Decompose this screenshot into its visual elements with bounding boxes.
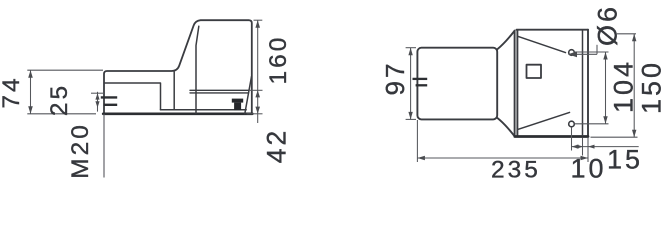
ext hole center vertical [571,127,573,150]
dimensions left view [27,20,262,123]
arrowheads right view [408,34,636,160]
plate double line upper [190,89,249,91]
cone bottom [497,118,514,136]
ext shared bottom [247,113,263,115]
base right slant inner edge [245,77,252,114]
dia6 leader vertical [596,45,598,55]
ext 150 top [617,33,636,35]
tube rounded rect [417,48,497,120]
dimensions right view [406,34,639,162]
arrow dim74 bottom [28,106,33,114]
arrow dim235 left [417,156,425,160]
svg-text:M20: M20 [67,122,94,179]
nub bolt body [234,103,241,111]
arrow dim10 right [588,145,595,149]
inner bottom line [161,109,247,111]
bottom chained dim line 10/15 [572,146,639,148]
arrow dim104 bottom [603,116,607,124]
dim 97 line [410,48,412,120]
arrowheads left view [28,20,260,114]
dim 235 line [417,157,588,159]
inner small rect (lens) [527,65,542,78]
texts left view (rotated) [0,35,292,179]
ext 160 top [254,19,263,21]
nub bolt cap on base [232,99,243,103]
arrow dim235 right [581,156,589,160]
dim 25 line [97,92,99,112]
svg-text:42: 42 [262,128,292,163]
arrow dim150 bottom [632,130,636,138]
ext tube left down [416,120,418,162]
tube thread tick lower [416,84,428,86]
front face line 1 [514,31,516,137]
arrow dim160 top [255,20,260,28]
ext bottom 74 [27,113,96,115]
arrow dim97 top [408,48,412,56]
M20 leader (box edge extended down) [103,114,105,178]
head bottom edge thick [515,135,588,138]
mounting hole top (dia 6) [569,50,575,56]
M20 thread tick lower [104,104,118,106]
tube thread tick upper [413,78,428,80]
ext 42 top [249,89,263,91]
dim 150 line [633,34,635,137]
front face line 2 [516,31,518,137]
inner slant of tower [196,26,199,113]
M20 thread tick upper [101,96,117,98]
svg-text:235: 235 [491,157,541,184]
svg-text:160: 160 [265,35,292,85]
arrow dim160/42 bottom [255,107,260,114]
head right edge [587,30,589,137]
arrow dim104 top [603,52,607,60]
outer profile left view [104,20,252,114]
arrow dim150 top [632,34,636,42]
dim 74 line [30,70,32,114]
svg-text:15: 15 [607,145,643,175]
svg-text:Ø6: Ø6 [592,4,622,46]
ext 97 bottom [406,118,416,120]
svg-text:74: 74 [0,75,25,108]
svg-text:10: 10 [570,154,606,184]
ext 104 bottom [575,123,609,125]
arrow dim42 top [255,90,260,97]
ext 25 top [91,92,104,94]
dim 160/42 line [257,20,259,123]
svg-text:150: 150 [637,60,667,114]
dia6 leader horizontal [569,53,598,55]
dim 104 line [605,52,607,124]
svg-text:104: 104 [609,59,639,113]
arrow dim74 top [28,70,33,78]
arrow dim25 top [95,93,99,99]
ext right edge down [587,138,589,163]
interior slant bottom [517,112,569,129]
arrow dim97 bottom [408,112,412,120]
texts right view [380,61,541,184]
mounting hole bottom (dia 6) [569,121,575,127]
svg-text:97: 97 [380,61,410,96]
cone top [497,31,514,49]
dia6 arrow [568,51,577,57]
ext top 74 [27,69,103,71]
arrow dim15 right / dim10 left [577,145,583,149]
arrow dim15 left [572,145,579,149]
ext 150 bottom [591,136,638,138]
inner vertical of head [582,31,584,136]
inner top line of lower box [105,83,161,110]
inner vertical under fillet [173,72,175,110]
plate double line lower [190,92,249,94]
bottom edge thick [103,112,252,115]
head top edge [517,29,589,31]
ext 104 top [575,51,609,53]
arrow dim25 bottom [95,101,99,107]
interior slant top [517,36,565,52]
ext 97 top [406,47,416,49]
ext inner vertical down [582,138,584,156]
svg-text:25: 25 [46,83,73,116]
